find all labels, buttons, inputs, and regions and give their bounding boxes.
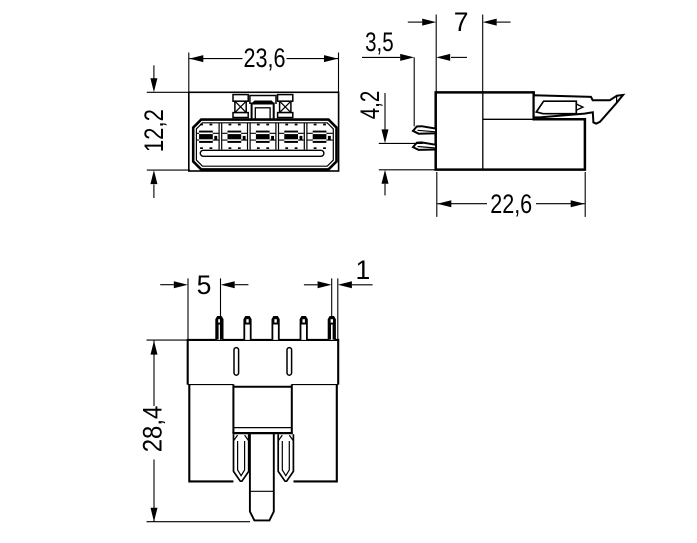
dimension 1 extension lines [332,278,338,339]
side view upper solder pin [413,126,436,134]
front view contact 1 block [199,131,217,143]
svg-text:28,4: 28,4 [138,406,168,453]
dimension 3,5 leader and arrows [362,56,467,58]
front view latch center box [252,104,274,120]
front view contact 4 block [284,131,302,143]
front view latch center roof [250,96,276,105]
front view latch left base [233,113,248,118]
front view latch right base [278,113,293,118]
side view latch beak notch [617,95,623,102]
bottom view block divider line [188,384,339,386]
bottom view top block [188,340,339,385]
front view latch left crossed box [235,101,246,112]
bottom view slot right [287,348,292,376]
dimension 22,6 line and arrows [437,203,584,205]
dimension 12,2 extension lines [147,92,190,170]
svg-text:7: 7 [454,7,469,37]
dimension 28,4 line and arrows [153,341,155,522]
side view latch rod [536,101,583,114]
front view cell 3 ticks [257,124,269,149]
front view cell 1 ticks [200,124,212,149]
bottom view pin 5 [329,317,335,340]
front view contact slot [200,150,324,156]
front view outer body [189,92,339,171]
svg-text:4,2: 4,2 [355,91,385,120]
svg-text:5: 5 [197,270,212,300]
dimension 22,6 extension lines [437,172,585,217]
svg-text:1: 1 [356,255,371,285]
front view cell 5 ticks [314,124,326,149]
dimension 5 arrows [160,284,248,286]
bottom view pin 4 [301,317,307,340]
side view body [436,92,585,169]
bottom view tongue [232,384,292,433]
dimension 28,4 extension lines [147,340,251,522]
side view lower solder pin [413,142,436,150]
front view cell 2 ticks [229,124,241,149]
svg-text:23,6: 23,6 [244,43,286,73]
front view housing [193,120,336,170]
svg-text:3,5: 3,5 [365,27,394,57]
dimension 23,6 line and arrows [189,58,338,60]
dimension 1 arrows [304,284,373,286]
front view cell walls [219,123,307,150]
dimension 7 arrows [408,21,511,23]
front view housing inner outline [196,123,333,166]
bottom view pin 3 [272,317,278,340]
bottom view left prong [234,434,249,481]
front view contact 4 spring lines [279,133,304,140]
front view contact 1 spring lines [197,133,219,140]
front view latch left cap [233,95,248,102]
front view cell 4 ticks [285,124,297,149]
dimension 23,6 extension lines [189,53,339,93]
svg-text:22,6: 22,6 [490,189,532,219]
front view latch right cap [278,95,293,102]
dimension 3,5 extension line [413,57,415,126]
front view latch right crossed box [280,101,291,112]
front view contact 5 spring lines [307,133,332,140]
bottom view pin 1 [216,317,222,340]
bottom view pin 2 [244,317,250,340]
bottom view right prong [278,434,293,481]
front view contact 5 block [313,131,331,143]
side view latch arm [534,95,623,124]
side view step line [483,118,540,120]
front view contact 3 block [256,131,274,143]
svg-text:12,2: 12,2 [139,109,169,152]
dimension 7 extension lines [436,15,483,93]
dimension 12,2 arrows [153,65,155,198]
front view contact 2 block [228,131,246,143]
side view internal divider [482,92,484,169]
bottom view slot left [234,348,239,376]
front view contact 2 spring lines [222,133,247,140]
dimension 5 extension lines [188,278,221,339]
bottom view lower block [189,385,336,482]
dimension 4,2 extension lines [379,143,436,169]
bottom view center post [250,434,274,521]
dimension 4,2 arrows [384,93,386,195]
front view latch center window [255,108,270,120]
front view contact 3 spring lines [251,133,276,140]
